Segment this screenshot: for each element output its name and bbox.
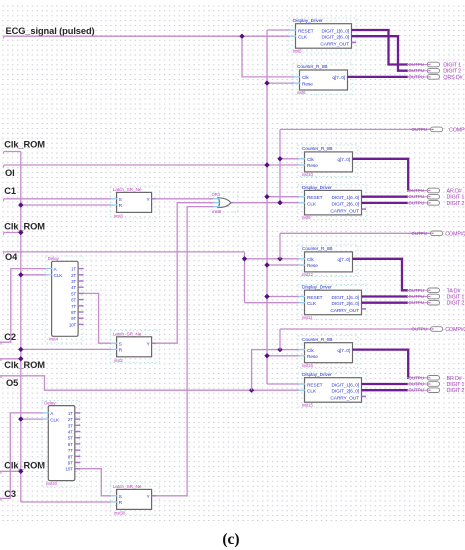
output pin AR D# (407, 190, 428, 192)
wire group2 clock to counter2 Clk (280, 158, 299, 160)
delay output 2T stub (75, 418, 81, 420)
wire COMP1 horizontal (280, 128, 431, 130)
svg-text:DIGIT 1: DIGIT 1 (447, 195, 465, 201)
svg-text:1T: 1T (71, 267, 76, 272)
svg-text:OUTPU: OUTPU (409, 294, 425, 299)
counter Rese input stub (298, 264, 305, 266)
svg-text:OUTPU: OUTPU (409, 62, 425, 67)
svg-text:DIGIT 2: DIGIT 2 (447, 301, 465, 307)
svg-text:7T: 7T (71, 304, 76, 309)
junction O5 net and COMP3 riser (277, 347, 282, 352)
delay output 7T stub (75, 449, 81, 451)
counter Counter_R_8B (300, 70, 348, 90)
delay output 5T stub (78, 292, 84, 294)
svg-text:RESET: RESET (307, 195, 323, 201)
svg-text:6T: 6T (71, 298, 76, 303)
svg-text:COMP#2: COMP#2 (445, 231, 465, 237)
delay CLK input stub (42, 418, 49, 420)
latch Y output stub (152, 342, 157, 344)
counter Rese input stub (298, 164, 305, 166)
wire Clk_ROM stub 4 (0, 470, 21, 472)
output pin COMP#3 (410, 328, 431, 330)
svg-text:4T: 4T (71, 285, 76, 290)
svg-text:Latch_SR_Ne: Latch_SR_Ne (113, 331, 142, 337)
svg-text:CLK: CLK (54, 273, 64, 278)
svg-text:inst5: inst5 (293, 48, 302, 53)
display driver U_DD1 selection box (289, 18, 357, 53)
junction reset/counter1 (264, 80, 269, 85)
svg-text:OUTPU: OUTPU (412, 127, 428, 132)
bus DD3 DIGIT_2 to pin (362, 302, 409, 304)
svg-text:8T: 8T (68, 454, 73, 459)
delay output 1T stub (78, 268, 84, 270)
svg-text:9T: 9T (68, 461, 73, 466)
svg-text:RESET: RESET (298, 28, 314, 34)
svg-text:10T: 10T (66, 467, 74, 472)
delay block (48, 406, 75, 481)
svg-text:(c): (c) (222, 531, 239, 548)
display driver U_DD1 (296, 24, 352, 49)
bus counter2 q to pin (353, 159, 409, 191)
svg-text:OUTPU: OUTPU (409, 68, 425, 73)
svg-text:inst30: inst30 (114, 511, 126, 516)
U_DD3 RESET input stub (298, 296, 305, 298)
svg-text:5T: 5T (71, 291, 76, 296)
svg-text:inst16: inst16 (302, 363, 314, 368)
output pin DIGIT 1 (407, 296, 428, 298)
svg-text:OUTPU: OUTPU (409, 382, 425, 387)
wire Clk_ROM to latch3 R (21, 501, 111, 503)
svg-text:inst12: inst12 (302, 272, 314, 277)
counter Counter_R_8B (305, 152, 353, 172)
wire O5 net from label (0, 376, 299, 390)
svg-text:CLK: CLK (307, 301, 317, 307)
label line end ticks (3, 36, 5, 38)
display driver U_DD2 (305, 190, 362, 215)
latch selection box (110, 330, 159, 362)
svg-text:inst40: inst40 (46, 481, 58, 486)
svg-text:Clk_ROM: Clk_ROM (4, 360, 45, 370)
output pin DIGIT 1 (407, 196, 428, 198)
svg-text:inst9: inst9 (302, 215, 311, 220)
U_DD3 CARRY_OUT stub (362, 308, 367, 310)
junction reset/counter3 (264, 262, 269, 267)
counter Rese input stub (298, 355, 305, 357)
junction Clk_ROM/delay2 CLK (18, 416, 23, 421)
wire C3 to delay2 A (0, 413, 42, 499)
wire Clk_ROM to latch2 R (21, 348, 111, 350)
U_DD3 CLK input stub (298, 302, 305, 304)
delay output 3T stub (78, 280, 84, 282)
counter Clk input stub (298, 158, 305, 160)
output pin DIGIT 2 (407, 389, 428, 391)
delay output 3T stub (75, 424, 81, 426)
svg-text:CLK: CLK (298, 35, 308, 41)
svg-text:CLK: CLK (50, 417, 60, 422)
svg-text:Clk: Clk (307, 257, 314, 263)
svg-text:q[7..0]: q[7..0] (337, 348, 350, 354)
delay A input stub (45, 268, 52, 270)
svg-text:BR D#: BR D# (447, 376, 462, 382)
latch R input stub (110, 204, 117, 206)
svg-text:8T: 8T (71, 310, 76, 315)
svg-text:RESET: RESET (307, 382, 323, 388)
wire ECG branch vertical to counter1 (242, 36, 294, 77)
latch Y output stub (152, 495, 157, 497)
svg-text:DIGIT 1: DIGIT 1 (443, 63, 461, 69)
wire O4 net horizontal (4, 251, 245, 253)
svg-text:inst4: inst4 (49, 337, 58, 342)
svg-text:OI: OI (5, 168, 15, 178)
svg-text:Rese: Rese (307, 354, 318, 360)
bus DD2 DIGIT_2 to pin (362, 202, 409, 204)
delay output 4T stub (78, 286, 84, 288)
svg-text:S: S (119, 197, 122, 203)
junction group2 clock / OR output (277, 200, 282, 205)
junction O4/counter3 clk (242, 256, 247, 261)
wire group2 clock vertical (279, 129, 281, 202)
junction Clk_ROM/latch1 R (18, 202, 23, 207)
junction O5 branch (249, 388, 254, 393)
counter Counter_R_8B (305, 343, 353, 363)
svg-text:DIGIT 2: DIGIT 2 (447, 201, 465, 207)
delay output 8T stub (75, 455, 81, 457)
OR3 output stub (231, 202, 234, 204)
latch S input stub (110, 198, 117, 200)
svg-text:Counter_R_8B: Counter_R_8B (297, 64, 328, 70)
svg-text:CARRY_OUT: CARRY_OUT (330, 308, 359, 314)
wire Clk_ROM stub 1 (4, 151, 21, 153)
or-gate OR3 selection box (210, 192, 238, 212)
wire reset to DD4 RESET (267, 383, 299, 385)
svg-text:OUTPU: OUTPU (409, 200, 425, 205)
svg-text:DIGIT_1[6..0]: DIGIT_1[6..0] (332, 382, 360, 388)
junction Clk_ROM stub2 (18, 230, 23, 235)
latch selection box (110, 186, 159, 218)
U_DD1 CLK input stub (289, 35, 296, 37)
delay output 2T stub (78, 274, 84, 276)
svg-text:COMP#1: COMP#1 (449, 127, 465, 133)
output pin COMP#2 (410, 232, 431, 234)
svg-text:Delay: Delay (48, 256, 60, 261)
wire OR3 output to DD2 CLK (233, 202, 299, 204)
delay output 6T stub (75, 443, 81, 445)
svg-text:Clk: Clk (307, 348, 314, 354)
delay output 4T stub (75, 431, 81, 433)
counter Counter_R_8B (305, 252, 353, 272)
svg-text:inst10: inst10 (302, 172, 314, 177)
svg-text:5T: 5T (68, 436, 73, 441)
svg-text:OUTPU: OUTPU (412, 327, 428, 332)
wire reset to counter3 Rese (267, 264, 299, 266)
wire C2 to delay1 A (0, 269, 46, 343)
svg-text:O4: O4 (5, 252, 18, 262)
wire Clk_ROM to delay1 CLK (21, 274, 46, 276)
wire Clk_ROM to delay2 CLK (21, 418, 43, 420)
counter selection box (298, 336, 358, 368)
output pin COMP#1 (410, 128, 431, 130)
svg-text:2T: 2T (68, 417, 73, 422)
svg-text:DIGIT_1[6..0]: DIGIT_1[6..0] (332, 195, 360, 201)
svg-text:2T: 2T (71, 273, 76, 278)
U_DD4 CARRY_OUT stub (362, 395, 367, 397)
svg-text:10T: 10T (69, 322, 77, 327)
latch Latch_SR_Ne (117, 337, 152, 357)
display driver U_DD4 (305, 378, 362, 403)
wire delay2 10T to latch3 S (80, 469, 111, 496)
svg-text:CARRY_OUT: CARRY_OUT (320, 42, 349, 48)
delay CLK input stub (45, 274, 52, 276)
OR3 input stubs (212, 198, 221, 200)
svg-text:4T: 4T (68, 430, 73, 435)
display driver U_DD4 selection box (298, 372, 367, 407)
svg-text:7T: 7T (68, 448, 73, 453)
output pin QRS D# (407, 76, 428, 78)
wire Clk_ROM stub 2 (4, 232, 21, 234)
delay output 5T stub (75, 437, 81, 439)
latch S input stub (110, 342, 117, 344)
wire latch3 Y to OR3 input3 (156, 207, 213, 496)
display driver U_DD3 (305, 290, 362, 315)
or-gate OR3 U8 (218, 198, 231, 208)
svg-text:CLK: CLK (307, 201, 317, 207)
junction reset/DD3 (264, 294, 269, 299)
wire COMP3 riser (279, 329, 281, 350)
output pin DIGIT 2 (407, 202, 428, 204)
latch R input stub (110, 348, 117, 350)
bus DD1 DIGIT_1 to pin (352, 30, 409, 65)
svg-text:6T: 6T (68, 442, 73, 447)
output pin DIGIT 1 (407, 383, 428, 385)
svg-text:C1: C1 (4, 186, 16, 196)
svg-text:Rese: Rese (307, 263, 318, 269)
latch Y output stub (152, 198, 157, 200)
svg-text:inst3: inst3 (114, 214, 123, 219)
svg-text:DIGIT_2[6..0]: DIGIT_2[6..0] (332, 301, 360, 307)
svg-text:S: S (119, 494, 122, 500)
output pin DIGIT 2 (407, 302, 428, 304)
svg-text:q[7..0]: q[7..0] (337, 157, 350, 163)
wire reset to counter2 Rese (267, 164, 299, 166)
bus counter3 q to pin (353, 259, 409, 291)
output pin DIGIT 1 (407, 64, 428, 66)
svg-text:inst8: inst8 (212, 209, 221, 214)
wire ECG_signal net horizontal (4, 35, 290, 37)
bus DD3 DIGIT_1 to pin (362, 295, 409, 297)
bus DD1 DIGIT_2 to pin (352, 36, 409, 70)
svg-text:OUTPU: OUTPU (412, 231, 428, 236)
wire reset net vertical (266, 30, 268, 384)
delay output 1T stub (75, 412, 81, 414)
wire COMP2 horizontal (280, 232, 431, 234)
wire reset to DD2 RESET (267, 196, 299, 198)
svg-text:C2: C2 (4, 332, 16, 342)
svg-text:DIGIT 1: DIGIT 1 (447, 382, 465, 388)
svg-text:Display_Driver: Display_Driver (302, 285, 332, 291)
junction O4 net and COMP2 riser (277, 256, 282, 261)
svg-text:Counter_R_8B: Counter_R_8B (302, 337, 333, 343)
latch Latch_SR_Ne (117, 192, 152, 212)
svg-text:Counter_R_8B: Counter_R_8B (302, 146, 333, 152)
display driver U_DD2 selection box (298, 185, 367, 220)
svg-text:inst2: inst2 (114, 358, 123, 363)
output pin BR D# (407, 377, 428, 379)
svg-text:OUTPU: OUTPU (409, 288, 425, 293)
output pin DIGIT 2 (407, 70, 428, 72)
junction reset/DD2 (264, 194, 269, 199)
svg-text:Display_Driver: Display_Driver (302, 372, 332, 378)
bus DD2 DIGIT_1 to pin (362, 196, 409, 198)
svg-text:OUTPU: OUTPU (409, 388, 425, 393)
counter selection box (298, 145, 358, 177)
svg-text:Clk: Clk (302, 75, 309, 81)
svg-text:OUTPU: OUTPU (409, 375, 425, 380)
svg-text:DIGIT_1[6..0]: DIGIT_1[6..0] (322, 28, 350, 34)
svg-text:Clk_ROM: Clk_ROM (4, 221, 45, 231)
counter Clk input stub (293, 76, 300, 78)
svg-text:DIGIT 2: DIGIT 2 (447, 388, 465, 394)
svg-text:QRS D#: QRS D# (443, 75, 462, 81)
junction Clk_ROM/latch2 R (18, 347, 23, 352)
junction ECG branch (239, 34, 244, 39)
U_DD1 CARRY_OUT stub (352, 41, 357, 43)
wire Clk_ROM stub 3 (0, 358, 21, 360)
counter Rese input stub (293, 82, 300, 84)
delay output 6T stub (78, 299, 84, 301)
wire latch2 Y to OR3 input2 (156, 203, 213, 344)
wire delay1 5T to latch2 S (83, 293, 111, 343)
svg-text:OR3: OR3 (212, 192, 221, 197)
svg-text:DIGIT_2[6..0]: DIGIT_2[6..0] (332, 389, 360, 395)
counter Clk input stub (298, 349, 305, 351)
U_DD2 CLK input stub (298, 202, 305, 204)
svg-text:9T: 9T (71, 316, 76, 321)
svg-text:CARRY_OUT: CARRY_OUT (330, 396, 359, 402)
svg-text:ECG_signal (pulsed): ECG_signal (pulsed) (6, 26, 95, 36)
svg-text:inst15: inst15 (302, 402, 314, 407)
wire reset to counter1 Rese (267, 82, 294, 84)
svg-text:Clk_ROM: Clk_ROM (4, 140, 45, 150)
svg-text:OUTPU: OUTPU (409, 194, 425, 199)
svg-text:q[7..0]: q[7..0] (332, 75, 345, 81)
counter selection box (298, 245, 358, 277)
wire COMP2 riser (279, 233, 281, 258)
delay block (52, 261, 79, 336)
latch Latch_SR_Ne (117, 489, 152, 509)
svg-text:inst6: inst6 (297, 90, 306, 95)
wire OI / reset net horizontal (4, 164, 267, 166)
bus DD4 DIGIT_1 to pin (362, 383, 409, 385)
svg-text:CLK: CLK (307, 389, 317, 395)
U_DD4 CLK input stub (298, 389, 305, 391)
svg-text:RESET: RESET (307, 295, 323, 301)
svg-text:AR D#: AR D# (447, 189, 462, 195)
svg-text:OUTPU: OUTPU (409, 74, 425, 79)
wire O4 vertical (244, 252, 246, 303)
svg-text:DIGIT_1[6..0]: DIGIT_1[6..0] (332, 295, 360, 301)
output pin TA D# (407, 289, 428, 291)
svg-text:DIGIT 1: DIGIT 1 (447, 295, 465, 301)
svg-text:Display_Driver: Display_Driver (302, 185, 332, 191)
svg-text:DIGIT 2: DIGIT 2 (443, 69, 461, 75)
svg-text:1T: 1T (68, 411, 73, 416)
svg-text:DIGIT_2[6..0]: DIGIT_2[6..0] (322, 35, 350, 41)
svg-text:Rese: Rese (307, 163, 318, 169)
svg-text:Display_Driver: Display_Driver (293, 18, 323, 24)
svg-text:DIGIT_2[6..0]: DIGIT_2[6..0] (332, 201, 360, 207)
junction reset/OI (264, 162, 269, 167)
delay output 7T stub (78, 305, 84, 307)
junction Clk_ROM stub4 (18, 469, 23, 474)
svg-text:q[7..0]: q[7..0] (337, 257, 350, 263)
delay A input stub (42, 412, 49, 414)
delay output 10T stub (78, 323, 84, 325)
svg-text:Delay: Delay (44, 400, 56, 405)
delay output 10T stub (75, 468, 81, 470)
svg-text:OUTPU: OUTPU (409, 188, 425, 193)
U_DD2 RESET input stub (298, 196, 305, 198)
wire reset to counter4 Rese (267, 355, 299, 357)
wire C1 to latch1 S (4, 198, 111, 200)
svg-text:Latch_SR_Ne: Latch_SR_Ne (113, 484, 142, 490)
counter selection box (293, 63, 353, 95)
svg-text:Latch_SR_Ne: Latch_SR_Ne (113, 187, 142, 193)
svg-text:COMP#3: COMP#3 (445, 327, 465, 333)
wire O4 to DD3 CLK (245, 302, 299, 304)
delay output 9T stub (78, 317, 84, 319)
U_DD2 CARRY_OUT stub (362, 208, 367, 210)
bus counter4 q to pin (353, 350, 409, 378)
bus DD4 DIGIT_2 to pin (362, 389, 409, 391)
wire reset to DD3 RESET (267, 296, 299, 298)
svg-text:3T: 3T (68, 423, 73, 428)
delay output 9T stub (75, 462, 81, 464)
counter Clk input stub (298, 258, 305, 260)
wire latch1 Y to OR3 input1 (156, 198, 213, 200)
junction Clk_ROM stub3 (18, 356, 23, 361)
junction reset/counter4 (264, 353, 269, 358)
svg-text:Clk: Clk (307, 157, 314, 163)
wire Clk_ROM to latch1 R (21, 204, 111, 206)
svg-text:O5: O5 (6, 378, 18, 388)
wire COMP3 horizontal (280, 328, 431, 330)
svg-text:Counter_R_8B: Counter_R_8B (302, 246, 333, 252)
svg-text:S: S (119, 341, 122, 347)
svg-text:inst11: inst11 (302, 315, 313, 320)
U_DD4 RESET input stub (298, 383, 305, 385)
svg-text:TA D#: TA D# (447, 288, 461, 294)
svg-text:3T: 3T (71, 279, 76, 284)
wire reset to DD1 RESET (267, 29, 290, 31)
svg-text:CARRY_OUT: CARRY_OUT (330, 208, 359, 214)
junction Clk_ROM/delay1 CLK (18, 272, 23, 277)
junction group2 clock / counter2 (277, 156, 282, 161)
wire O4 to counter3 Clk (245, 258, 299, 260)
delay selection box (45, 256, 83, 343)
wire Clk_ROM vertical (20, 152, 22, 503)
display driver U_DD3 selection box (298, 285, 367, 320)
latch selection box (110, 483, 159, 515)
wire O5 riser to counter4 (252, 350, 299, 391)
U_DD1 RESET input stub (289, 29, 296, 31)
bus counter1 q to pin (348, 76, 409, 78)
latch S input stub (110, 495, 117, 497)
latch R input stub (110, 501, 117, 503)
svg-text:Rese: Rese (302, 81, 313, 87)
svg-text:OUTPU: OUTPU (409, 300, 425, 305)
delay selection box (42, 400, 80, 487)
delay output 8T stub (78, 311, 84, 313)
